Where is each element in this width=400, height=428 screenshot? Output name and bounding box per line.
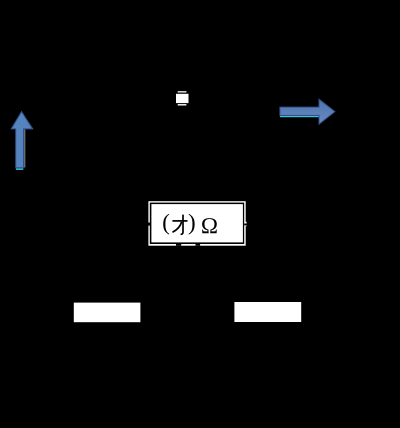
label text katakana o — [172, 215, 187, 235]
current arrow up (left, gray shadow) — [24, 119, 34, 168]
label text fullwidth open paren — [163, 214, 169, 235]
cyan fringe under left arrow — [16, 168, 23, 170]
wire: right vertical — [354, 98, 356, 311]
label text ohm unit — [202, 218, 217, 233]
resistor R1 (bottom left) border — [72, 301, 143, 325]
wire: left vertical — [44, 98, 46, 311]
resistor R2 (bottom right) border — [232, 300, 303, 324]
wire bump right of label box — [244, 222, 246, 226]
label box: white fill — [151, 204, 243, 242]
ammeter A: front box fill — [176, 94, 189, 103]
wire: bottom rail — [45, 310, 355, 312]
current arrow right (top right) — [280, 99, 335, 124]
battery E on left wire — [33, 150, 57, 158]
resistor R2 (bottom right) — [234, 302, 301, 322]
ammeter A (top component): back plate — [178, 91, 187, 105]
wire nick bottom-right of label box — [196, 244, 201, 246]
wire nick right of label box — [244, 224, 247, 226]
wire nick left of label box — [148, 223, 150, 226]
wire: middle rail — [45, 223, 355, 225]
ammeter A: front box frame — [175, 93, 190, 105]
current arrow up (left) — [11, 112, 32, 168]
label box: black border — [150, 203, 244, 244]
cyan fringe under right arrow — [280, 116, 319, 117]
resistor R1 (bottom left) — [74, 303, 141, 323]
wire nick bottom-left of label box — [176, 244, 181, 246]
label text fullwidth close paren — [189, 214, 195, 235]
wire: stubs below label box — [177, 240, 180, 311]
wire: top rail — [45, 97, 355, 99]
label box (オ) Ω : outer white rim — [148, 201, 245, 246]
